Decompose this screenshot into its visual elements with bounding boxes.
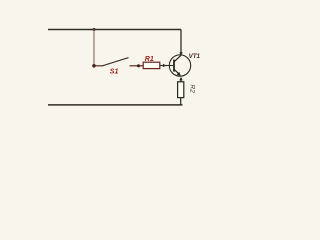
svg-text:R2: R2 [189, 85, 196, 94]
svg-text:VT1: VT1 [189, 53, 201, 60]
svg-text:R1: R1 [145, 56, 154, 63]
svg-text:S1: S1 [110, 69, 119, 76]
